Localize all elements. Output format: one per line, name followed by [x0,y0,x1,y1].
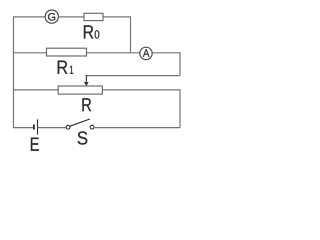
wire R1 to ammeter [87,52,140,54]
label R1 [58,61,73,74]
rheostat slider arrow [84,75,89,86]
label R0 [84,25,99,38]
label R [82,98,91,111]
ammeter A [140,47,152,59]
wire A to right then down to slider wire [152,53,180,76]
galvanometer G [45,10,58,23]
wire bottom row left segment to battery [13,127,34,129]
wire battery to switch [38,127,67,129]
wire R box to right then down to bottom row [102,90,180,128]
wire left vertical bus [13,17,15,128]
wire top branch left segment [13,16,45,18]
wire G to R0 [58,16,84,18]
wire branch2 left lead [13,52,47,54]
battery E [34,119,38,134]
label E [31,138,39,151]
wire slider horizontal [86,75,180,77]
wire R0 to top-right corner and down [103,17,131,53]
resistor R0 box [84,13,103,20]
resistor R1 box [47,48,87,56]
wire branch3 left lead [13,89,58,91]
label S [78,131,88,144]
rheostat R box [58,86,102,94]
wire switch to bottom-right corner [94,127,180,129]
switch S [66,119,94,129]
